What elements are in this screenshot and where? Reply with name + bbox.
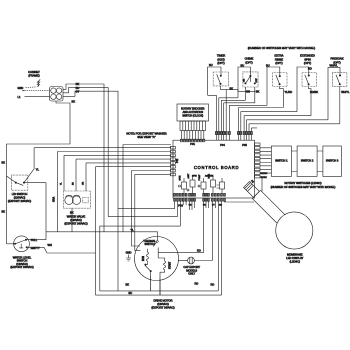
svg-text:P05: P05: [242, 143, 247, 147]
svg-text:(EXPORT 240VAC): (EXPORT 240VAC): [8, 199, 31, 203]
wire labels on t1 t2 t3: [76, 82, 80, 93]
internal relay K1: [179, 175, 187, 192]
connector bottom group B: [189, 199, 196, 202]
svg-text:(EXPORT 240VAC): (EXPORT 240VAC): [151, 305, 174, 309]
wire right connector down to display: [260, 177, 262, 192]
motor start contacts: [145, 264, 152, 291]
connector body of encoder: [180, 121, 206, 131]
svg-text:(NUMBER OF SWITCHES MAY VARY W: (NUMBER OF SWITCHES MAY VARY WITH MODEL): [271, 185, 336, 189]
svg-text:BU: BU: [209, 63, 213, 67]
wire chassis to terminal block (dashed): [23, 90, 50, 91]
motor center tap: [158, 248, 178, 259]
svg-text:PRESOAK: PRESOAK: [331, 57, 344, 61]
svg-text:SPIN: SPIN: [192, 175, 197, 177]
switch S5 PRESOAK: [328, 67, 350, 123]
svg-text:GY/BK: GY/BK: [261, 177, 268, 179]
water level switch labels: [10, 238, 52, 269]
svg-text:LED DISPLAY: LED DISPLAY: [286, 256, 303, 260]
svg-text:CONTROL BOARD: CONTROL BOARD: [194, 165, 239, 170]
capacitor C1 export: [178, 201, 212, 275]
svg-text:ON: ON: [243, 78, 245, 82]
wire switch1 to switch2: [291, 151, 297, 172]
wire A2 board to left: [108, 201, 177, 216]
svg-text:GRA: GRA: [53, 196, 56, 202]
wire A1 board to motor rail: [118, 201, 175, 209]
wire switch2 to switch3: [317, 151, 323, 172]
wire staircase to P04: [208, 90, 267, 132]
wire t2 from TB1: [63, 88, 108, 217]
svg-text:YL: YL: [61, 182, 63, 185]
wires board to rotary switch 1: [260, 148, 271, 173]
rotary switches caption: [271, 181, 336, 189]
svg-text:P04: P04: [220, 143, 225, 147]
svg-text:BK: BK: [76, 82, 80, 86]
switch S3 EXTRA RINSE labels: [266, 54, 284, 68]
wire rail2 under motor: [96, 201, 222, 295]
switch S4 EXTENDED SPIN labels: [300, 54, 315, 71]
svg-text:SWITCH: SWITCH: [144, 242, 154, 246]
wire A4 A5 stubs: [183, 201, 186, 205]
svg-text:BK: BK: [256, 89, 260, 93]
wire w3 to water valve: [64, 155, 171, 191]
svg-text:OFF: OFF: [256, 78, 258, 83]
svg-text:YL/RD: YL/RD: [285, 90, 293, 94]
water level switch S7: [7, 236, 30, 252]
svg-text:SWITCH 1: SWITCH 1: [275, 159, 288, 163]
lid switch S6: [7, 175, 28, 190]
water valve V1: [61, 181, 91, 208]
svg-text:(120VAC): (120VAC): [14, 196, 26, 200]
wire BK TB1 down to lid switch bus: [2, 100, 76, 244]
wire w1 YL to lid switch: [24, 148, 171, 183]
wire w4 to water valve: [76, 159, 171, 191]
wire staircase to P05: [238, 108, 339, 132]
motor labels: [151, 298, 174, 309]
wire YL horizontal to motor: [46, 231, 158, 233]
svg-text:BK/WH: BK/WH: [261, 173, 268, 175]
connector P07 right edge: [255, 143, 268, 179]
svg-text:AGITATE: AGITATE: [205, 174, 214, 177]
svg-text:(AUX): (AUX): [217, 57, 224, 61]
thermal switch inside motor: [143, 237, 158, 247]
wire lid switch right to motor feed: [24, 183, 46, 240]
svg-text:AND ACTIVATION: AND ACTIVATION: [183, 111, 204, 114]
svg-text:RD: RD: [197, 249, 201, 253]
svg-text:AGIT: AGIT: [187, 173, 190, 179]
ground motor: [126, 251, 132, 261]
connector P03 bottom group A: [174, 199, 223, 208]
internal triac Q1: [217, 178, 225, 192]
wire t3 from TB1: [63, 91, 118, 291]
connector bottom group C: [203, 199, 210, 202]
svg-text:WH: WH: [48, 243, 52, 247]
membrane LED display pointer P1: [242, 178, 287, 223]
connector P05 pins: [237, 132, 252, 148]
rotary switch box SWITCH 2: [297, 146, 317, 176]
note for export washer: [126, 131, 166, 139]
switch S3 EXTRA RINSE: [267, 67, 292, 108]
svg-text:RD: RD: [195, 281, 199, 285]
water valve labels: [64, 210, 87, 225]
svg-text:SPIN: SPIN: [304, 57, 310, 61]
svg-text:ROTARY SWITCHES (L2DSC): ROTARY SWITCHES (L2DSC): [284, 181, 321, 185]
wire w2 GRA to valve area: [53, 152, 172, 232]
switch S1 TIMER(AUX) labels: [209, 54, 225, 68]
svg-text:BK: BK: [2, 161, 6, 165]
svg-text:(NUMBER OF SWITCHES MAY VARY W: (NUMBER OF SWITCHES MAY VARY WITH MODEL): [248, 46, 316, 50]
svg-text:GND: GND: [126, 251, 132, 255]
drive motor M1: [135, 237, 179, 281]
svg-text:BU: BU: [76, 86, 80, 90]
switch S5 PRESOAK labels: [330, 57, 344, 68]
svg-text:CABINET: CABINET: [28, 70, 40, 74]
svg-text:P03: P03: [178, 203, 183, 207]
connector bodies inside board bottom: [174, 193, 226, 196]
svg-text:BU: BU: [73, 182, 75, 185]
svg-text:SWITCH 2: SWITCH 2: [301, 159, 314, 163]
svg-text:SEE VIEW "A": SEE VIEW "A": [137, 135, 155, 139]
svg-text:RD/BK: RD/BK: [310, 90, 318, 94]
svg-text:WATER VALVE: WATER VALVE: [67, 215, 86, 219]
wire rail1 under motor: [100, 201, 219, 291]
svg-text:EXTRA: EXTRA: [275, 54, 284, 58]
svg-text:WH/YL: WH/YL: [330, 64, 339, 68]
svg-text:DRIVE MOTOR: DRIVE MOTOR: [154, 298, 173, 302]
run winding: [143, 249, 148, 265]
svg-text:CHIME: CHIME: [245, 57, 254, 61]
svg-text:P02: P02: [176, 158, 179, 163]
wire motor right to board C1: [179, 201, 204, 252]
wire w7 to drive motor: [132, 171, 172, 247]
rotary switch box SWITCH 1: [271, 146, 291, 176]
node L1: [18, 95, 50, 99]
svg-text:(FRAME): (FRAME): [28, 74, 39, 78]
connector P04 pins: [215, 132, 230, 148]
switch S4 EXTENDED SPIN: [297, 67, 318, 116]
svg-text:LID SWITCH: LID SWITCH: [12, 192, 28, 196]
svg-text:OR: OR: [83, 181, 85, 185]
node GND: [18, 86, 37, 90]
svg-text:RD: RD: [219, 205, 222, 207]
svg-text:MEMBRANE: MEMBRANE: [287, 252, 303, 256]
svg-text:EMPTY: EMPTY: [31, 246, 40, 250]
control board U1: [173, 140, 255, 198]
wire w0 top of left bundle: [123, 145, 171, 232]
wire board to display P1: [225, 200, 255, 203]
svg-text:YL: YL: [131, 228, 135, 232]
svg-text:RD: RD: [211, 283, 215, 287]
connector P02 left edge: [170, 146, 179, 175]
svg-text:START: START: [169, 261, 172, 269]
wire motor top to YL line: [157, 232, 159, 237]
svg-text:SWITCH 3: SWITCH 3: [326, 159, 339, 163]
svg-text:BK: BK: [2, 210, 6, 214]
svg-text:P01: P01: [190, 142, 195, 146]
svg-text:RINSE: RINSE: [275, 57, 283, 61]
wire A3 board to left rail: [100, 201, 181, 291]
pins P01 encoder to board: [180, 131, 204, 142]
wire w8 to drive motor: [135, 174, 171, 250]
internal relay K2: [187, 173, 195, 192]
switch S1 TIMER(AUX): [208, 67, 255, 95]
switch S2 CHIME labels: [241, 57, 254, 68]
internal wiring: [184, 192, 222, 195]
wire EMPTY WH: [28, 247, 96, 253]
terminal block TB1: [50, 87, 64, 102]
svg-text:TIMER: TIMER: [217, 54, 225, 58]
svg-text:BK: BK: [72, 100, 76, 104]
lid switch label: [8, 192, 31, 203]
svg-text:EXTENDED: EXTENDED: [300, 54, 315, 58]
wire w6 to water level and motor rail: [96, 167, 172, 295]
ground (cabinet chassis earth): [37, 79, 40, 86]
svg-text:WH/YL: WH/YL: [341, 90, 350, 94]
svg-text:SWITCH (CLOCK): SWITCH (CLOCK): [182, 115, 203, 118]
svg-text:GND: GND: [18, 86, 24, 90]
svg-text:YL: YL: [36, 168, 40, 172]
rotary encoder and activation switch: [177, 104, 209, 121]
connector bottom group D: [211, 199, 225, 202]
svg-text:SPIN: SPIN: [180, 175, 182, 180]
membrane LED display circle: [276, 212, 313, 263]
svg-text:(OPT): (OPT): [275, 61, 282, 65]
svg-text:BN: BN: [246, 89, 250, 93]
svg-text:(L2DSC): (L2DSC): [290, 259, 301, 263]
svg-text:L1: L1: [18, 95, 21, 99]
switch S2 CHIME: [238, 67, 260, 103]
wire FULL to lid feed: [27, 239, 46, 241]
wire bottom stubs B C D: [190, 201, 216, 210]
cabinet frame label: [28, 70, 40, 78]
svg-text:ONLY: ONLY: [188, 272, 195, 276]
svg-text:BK: BK: [126, 283, 130, 287]
rotary switch box SWITCH 3: [323, 146, 342, 176]
svg-text:RUN: RUN: [143, 256, 145, 261]
svg-text:(OPT): (OPT): [245, 60, 252, 64]
svg-text:GY: GY: [76, 89, 80, 93]
svg-text:(120VAC): (120VAC): [157, 302, 169, 306]
wire valve bottom down: [71, 208, 73, 232]
internal relay K4: [209, 173, 216, 192]
start winding: [158, 258, 171, 295]
svg-text:(OPT): (OPT): [304, 61, 311, 65]
svg-text:(EXPORT 240VAC): (EXPORT 240VAC): [64, 222, 87, 226]
svg-text:ROTARY ENCODER: ROTARY ENCODER: [181, 107, 205, 110]
wire w5 to water valve: [86, 163, 171, 191]
internal relay K3: [198, 174, 206, 192]
svg-text:BU: BU: [129, 291, 133, 295]
svg-text:(OPT): (OPT): [217, 61, 224, 65]
internal component labels: [192, 174, 214, 177]
svg-text:BK: BK: [230, 86, 234, 90]
svg-text:PUMP: PUMP: [199, 174, 201, 181]
svg-text:(EXPORT 240VAC): (EXPORT 240VAC): [10, 265, 33, 269]
wire t1 BK from TB1 to lower left: [63, 84, 104, 232]
